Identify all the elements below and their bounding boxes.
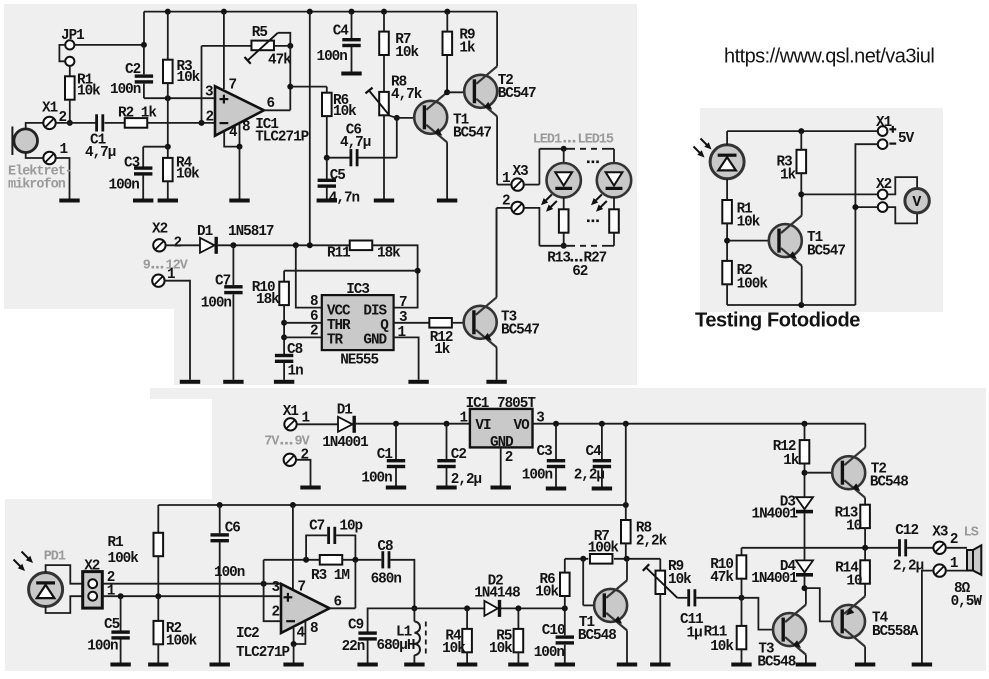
svg-text:IC1: IC1 xyxy=(466,396,489,412)
svg-text:R1: R1 xyxy=(108,535,124,551)
svg-text:LED1: LED1 xyxy=(533,133,562,148)
svg-text:8: 8 xyxy=(310,621,318,637)
svg-text:10k: 10k xyxy=(737,215,761,231)
svg-text:X1: X1 xyxy=(876,115,892,131)
svg-text:BC548: BC548 xyxy=(870,475,908,491)
svg-text:C1: C1 xyxy=(377,447,393,463)
svg-text:2,2µ: 2,2µ xyxy=(893,559,924,575)
svg-text:C3: C3 xyxy=(124,156,140,172)
svg-text:LS: LS xyxy=(964,526,979,541)
svg-text:10k: 10k xyxy=(77,84,101,100)
svg-text:100n: 100n xyxy=(522,468,553,484)
svg-text:100n: 100n xyxy=(361,471,392,487)
svg-text:1µ: 1µ xyxy=(687,626,703,642)
svg-text:1N5817: 1N5817 xyxy=(228,224,274,240)
svg-text:C10: C10 xyxy=(542,623,565,639)
svg-text:1: 1 xyxy=(502,171,510,187)
svg-text:680n: 680n xyxy=(371,572,402,588)
svg-text:C12: C12 xyxy=(895,523,918,539)
svg-text:7: 7 xyxy=(399,295,407,311)
svg-text:1: 1 xyxy=(398,325,406,341)
svg-text:1n: 1n xyxy=(288,364,304,380)
svg-text:TR: TR xyxy=(327,333,344,349)
svg-text:C2: C2 xyxy=(125,62,141,78)
svg-text:C2: C2 xyxy=(451,447,467,463)
svg-text:2: 2 xyxy=(272,605,280,621)
svg-text:X1: X1 xyxy=(42,101,58,117)
svg-text:X3: X3 xyxy=(513,164,529,180)
svg-text:IC3: IC3 xyxy=(346,282,369,298)
svg-text:2,2µ: 2,2µ xyxy=(451,472,482,488)
svg-text:8: 8 xyxy=(242,120,250,136)
svg-text:mikrofon: mikrofon xyxy=(8,178,66,193)
svg-text:BC547: BC547 xyxy=(453,126,491,142)
svg-text:3: 3 xyxy=(205,85,213,101)
svg-text:62: 62 xyxy=(572,264,588,280)
svg-text:X1: X1 xyxy=(283,404,299,420)
svg-text:22n: 22n xyxy=(342,639,365,655)
svg-text:X2: X2 xyxy=(152,222,168,238)
svg-text:0,5W: 0,5W xyxy=(951,594,983,610)
svg-text:BC548: BC548 xyxy=(578,628,616,644)
svg-text:https://www.qsl.net/va3iul: https://www.qsl.net/va3iul xyxy=(724,46,934,68)
svg-text:10k: 10k xyxy=(176,167,200,183)
svg-text:3: 3 xyxy=(272,580,280,596)
svg-text:18k: 18k xyxy=(256,292,280,308)
svg-text:1N4001: 1N4001 xyxy=(322,435,368,451)
svg-text:PD1: PD1 xyxy=(44,550,66,565)
svg-text:Testing Fotodiode: Testing Fotodiode xyxy=(695,310,860,332)
svg-text:7: 7 xyxy=(229,78,237,94)
svg-text:BC547: BC547 xyxy=(498,86,536,102)
svg-text:LED15: LED15 xyxy=(578,133,614,148)
svg-text:100n: 100n xyxy=(87,639,118,655)
svg-text:100k: 100k xyxy=(737,277,769,293)
svg-text:BC548: BC548 xyxy=(757,655,795,671)
svg-text:7: 7 xyxy=(298,580,306,596)
svg-text:10: 10 xyxy=(846,574,862,590)
svg-text:10k: 10k xyxy=(177,70,201,86)
svg-text:C5: C5 xyxy=(104,617,120,633)
svg-text:X2: X2 xyxy=(84,559,100,575)
svg-text:BC547: BC547 xyxy=(501,323,539,339)
svg-text:1: 1 xyxy=(460,411,468,427)
svg-text:1: 1 xyxy=(60,142,68,158)
svg-text:2,2µ: 2,2µ xyxy=(574,468,605,484)
svg-text:8: 8 xyxy=(310,294,318,310)
svg-text:R11: R11 xyxy=(327,246,350,262)
svg-text:R3 1M: R3 1M xyxy=(311,568,349,584)
svg-text:10k: 10k xyxy=(442,641,466,657)
svg-text:1N4001: 1N4001 xyxy=(752,507,798,523)
svg-text:R2 1k: R2 1k xyxy=(118,106,157,122)
svg-text:V: V xyxy=(912,194,921,211)
svg-text:2,2k: 2,2k xyxy=(636,534,668,550)
svg-text:2: 2 xyxy=(301,448,309,464)
svg-text:R5: R5 xyxy=(252,25,268,41)
svg-text:VI: VI xyxy=(475,418,491,434)
svg-text:10k: 10k xyxy=(333,104,357,120)
svg-text:GND: GND xyxy=(363,333,387,349)
svg-text:C3: C3 xyxy=(537,444,553,460)
svg-text:X3: X3 xyxy=(932,525,948,541)
svg-text:1: 1 xyxy=(950,556,958,572)
svg-text:100n: 100n xyxy=(214,565,245,581)
svg-text:2: 2 xyxy=(206,110,214,126)
svg-text:100n: 100n xyxy=(110,82,141,98)
svg-text:100k: 100k xyxy=(588,541,620,557)
svg-text:4,7n: 4,7n xyxy=(329,191,360,207)
svg-text:R13: R13 xyxy=(547,251,570,267)
svg-text:10k: 10k xyxy=(395,45,419,61)
svg-text:10k: 10k xyxy=(489,641,513,657)
svg-text:100n: 100n xyxy=(534,645,565,661)
svg-text:C5: C5 xyxy=(330,168,346,184)
svg-text:C6: C6 xyxy=(225,521,241,537)
svg-text:VO: VO xyxy=(514,418,531,434)
svg-text:100k: 100k xyxy=(166,634,198,650)
svg-text:10p: 10p xyxy=(339,519,362,535)
svg-text:2: 2 xyxy=(505,450,513,466)
svg-text:100n: 100n xyxy=(109,178,140,194)
svg-text:1k: 1k xyxy=(780,168,797,184)
svg-text:C7: C7 xyxy=(215,274,231,290)
svg-text:7805T: 7805T xyxy=(497,396,536,412)
svg-text:TLC271P: TLC271P xyxy=(255,130,308,146)
svg-text:2: 2 xyxy=(174,236,182,252)
svg-text:C8: C8 xyxy=(287,342,303,358)
svg-text:D1: D1 xyxy=(197,224,213,240)
svg-text:10k: 10k xyxy=(710,639,734,655)
svg-text:5V: 5V xyxy=(898,131,915,147)
svg-text:100n: 100n xyxy=(317,49,348,65)
svg-text:47k: 47k xyxy=(710,570,734,586)
svg-text:10k: 10k xyxy=(668,572,692,588)
svg-text:BC558A: BC558A xyxy=(872,624,919,640)
svg-text:4,7k: 4,7k xyxy=(391,87,423,103)
svg-text:680µH: 680µH xyxy=(377,638,415,654)
svg-text:2: 2 xyxy=(310,324,318,340)
svg-text:TLC271P: TLC271P xyxy=(236,645,289,661)
svg-text:C8: C8 xyxy=(377,539,393,555)
svg-text:10: 10 xyxy=(846,519,862,535)
svg-text:1N4148: 1N4148 xyxy=(474,586,520,602)
svg-text:C4: C4 xyxy=(586,444,603,460)
svg-text:X2: X2 xyxy=(876,177,892,193)
svg-text:100n: 100n xyxy=(201,296,232,312)
svg-text:4,7µ: 4,7µ xyxy=(340,135,371,151)
svg-text:7V: 7V xyxy=(264,435,280,450)
svg-text:1k: 1k xyxy=(459,41,476,57)
svg-text:D1: D1 xyxy=(337,403,353,419)
svg-text:47k: 47k xyxy=(268,53,292,69)
svg-text:2: 2 xyxy=(950,532,958,548)
svg-text:100k: 100k xyxy=(108,551,140,567)
svg-text:1k: 1k xyxy=(434,342,451,358)
svg-text:1N4001: 1N4001 xyxy=(751,571,797,587)
svg-text:4,7µ: 4,7µ xyxy=(85,145,116,161)
svg-text:18k: 18k xyxy=(377,246,401,262)
svg-text:C9: C9 xyxy=(348,618,364,634)
svg-text:1k: 1k xyxy=(783,453,800,469)
svg-text:9: 9 xyxy=(143,259,151,274)
svg-text:BC547: BC547 xyxy=(807,244,845,260)
svg-text:IC2: IC2 xyxy=(236,626,259,642)
svg-text:C4: C4 xyxy=(333,23,350,39)
svg-text:NE555: NE555 xyxy=(340,352,378,368)
svg-text:10k: 10k xyxy=(535,585,559,601)
svg-text:GND: GND xyxy=(490,435,514,451)
svg-text:C7: C7 xyxy=(309,519,325,535)
